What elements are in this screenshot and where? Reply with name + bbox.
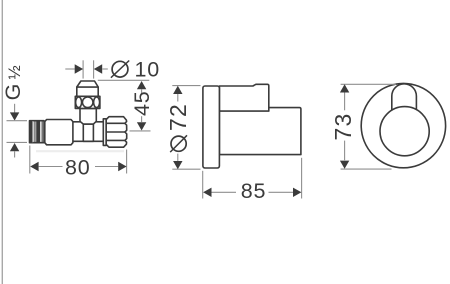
extension line body right bbox=[301, 158, 303, 199]
dimension O10 left tail bbox=[65, 68, 75, 70]
dimension 73 arrow down bbox=[340, 161, 349, 169]
nut left grip ellipse bbox=[76, 97, 82, 108]
knurled handle bbox=[106, 117, 127, 148]
dimension 85 line left bbox=[212, 191, 237, 193]
dimension O72 arrow up bbox=[173, 86, 182, 94]
dimension O72 arrow down bbox=[173, 161, 182, 169]
dimension 85 arrow left bbox=[203, 188, 211, 197]
dimension G 1/2 line upper bbox=[14, 104, 16, 113]
neck top line bbox=[73, 121, 103, 123]
extension line valve right end bbox=[126, 150, 128, 174]
knurl groove 3 bbox=[106, 139, 125, 141]
dimension O72 label diameter symbol bbox=[171, 136, 186, 151]
extension line pipe right bbox=[93, 60, 95, 78]
dimension 73 arrow up bbox=[340, 84, 349, 92]
extension line plate top bbox=[172, 85, 200, 87]
knurl groove 1 bbox=[106, 122, 125, 124]
svg-text:45: 45 bbox=[130, 90, 154, 116]
page left border bbox=[1, 0, 3, 284]
svg-text:10: 10 bbox=[135, 58, 161, 82]
handle dome side bbox=[219, 84, 268, 111]
dimension O10 arrow left bbox=[94, 64, 102, 73]
faint shadow under valve bbox=[36, 150, 124, 152]
dimension 73 line upper bbox=[344, 93, 346, 111]
dimension G 1/2 arrow up bbox=[10, 143, 19, 151]
handle inner circle bbox=[380, 107, 429, 156]
dimension 45 arrow down bbox=[137, 122, 146, 130]
extension line circle bottom bbox=[341, 168, 392, 170]
svg-text:73: 73 bbox=[330, 113, 356, 141]
knurl groove 2 bbox=[106, 131, 125, 133]
extension line axis right bbox=[130, 130, 151, 132]
escutcheon plate side bbox=[203, 86, 220, 168]
extension line thread top bbox=[7, 120, 28, 122]
outlet tube into body bbox=[83, 124, 93, 141]
outlet cap top bbox=[77, 81, 98, 87]
hex block under nut bbox=[80, 108, 96, 124]
extension line body left bbox=[202, 171, 204, 199]
extension line pipe left bbox=[82, 60, 84, 78]
rear body cylinder bbox=[219, 108, 301, 155]
dimension 73 line lower bbox=[344, 141, 346, 161]
extension line valve left end bbox=[29, 146, 31, 174]
thread tail G1/2 bbox=[30, 121, 45, 143]
dimension 45 line upper bbox=[141, 89, 143, 94]
dimension G 1/2 line lower bbox=[14, 151, 16, 157]
svg-text:85: 85 bbox=[241, 179, 267, 203]
dimension 45 line lower bbox=[141, 116, 143, 122]
svg-text:72: 72 bbox=[165, 103, 191, 131]
nut right grip ellipse bbox=[94, 97, 100, 108]
dimension O72 line upper bbox=[177, 94, 179, 102]
dimension 80 line right bbox=[95, 166, 118, 168]
dimension O10 arrow right bbox=[75, 64, 83, 73]
extension line thread bottom bbox=[7, 141, 28, 143]
escutcheon outer circle bbox=[361, 83, 445, 167]
extension line circle top bbox=[341, 83, 396, 85]
extension line plate bottom bbox=[172, 168, 200, 170]
union nut band bbox=[75, 96, 100, 108]
neck bottom line bbox=[73, 140, 103, 142]
extension line outlet top bbox=[98, 79, 150, 81]
dimension O10 right tail bbox=[102, 68, 108, 70]
outlet mid column bbox=[77, 87, 98, 96]
nut center grip circle bbox=[82, 97, 93, 108]
dimension 85 arrow right bbox=[293, 188, 301, 197]
dimension 85 line right bbox=[269, 191, 294, 193]
handle grip slot bbox=[392, 84, 417, 111]
dimension G 1/2 arrow down bbox=[10, 112, 19, 120]
dimension 45 arrow up bbox=[137, 81, 146, 89]
dimension 80 arrow right bbox=[118, 162, 126, 171]
collar ring bbox=[103, 119, 106, 146]
dimension O72 line lower bbox=[177, 154, 179, 161]
svg-text:80: 80 bbox=[65, 156, 91, 180]
dimension 80 arrow left bbox=[30, 162, 38, 171]
dimension O10 label diameter symbol bbox=[112, 61, 128, 77]
valve body cylinder bbox=[45, 120, 73, 145]
dimension 80 line left bbox=[39, 166, 63, 168]
